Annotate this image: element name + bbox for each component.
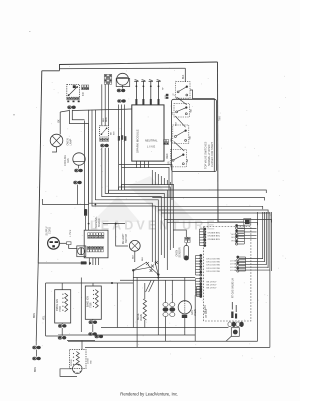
connector row under S1	[67, 97, 79, 100]
connector EOC left-mid ladder	[196, 254, 203, 276]
wire bottom y335	[58, 334, 195, 336]
svg-text:CLOSED FOR START: CLOSED FOR START	[211, 142, 214, 167]
svg-text:TAN: TAN	[188, 135, 191, 140]
coil bottom center	[143, 299, 146, 320]
svg-text:Rendered by LeadVenture, Inc.: Rendered by LeadVenture, Inc.	[120, 391, 178, 396]
svg-text:BLK: BLK	[133, 254, 135, 259]
watermark swoosh	[92, 176, 196, 222]
wire cord to junction	[59, 242, 66, 244]
wire node B down	[157, 275, 159, 335]
wire right border down to control	[217, 62, 220, 222]
fuse box with circle	[77, 246, 86, 257]
wire second top line	[60, 67, 186, 70]
wire door motor loop	[60, 369, 77, 377]
wire long left drop A	[84, 121, 86, 210]
wire feed y277	[133, 277, 195, 279]
connector stack under motor	[117, 89, 125, 92]
svg-text:HI GAS: HI GAS	[232, 239, 240, 242]
svg-text:BK LT RLY: BK LT RLY	[207, 282, 218, 284]
wire node A2 down	[136, 278, 138, 348]
svg-text:ON BKE BRL: ON BKE BRL	[208, 236, 221, 238]
svg-text:BRN: BRN	[35, 367, 37, 372]
wire to light switch	[116, 224, 128, 246]
wire left border (L1 feed)	[38, 71, 42, 263]
svg-text:BK: BK	[58, 119, 60, 123]
electrode IGNITOR 4	[158, 82, 160, 105]
connector EOC left-bot ladder	[196, 277, 203, 296]
svg-text:ML LIGHT: ML LIGHT	[123, 233, 125, 244]
module DOOR LOCK box	[70, 350, 87, 369]
svg-text:BLK: BLK	[103, 117, 105, 122]
svg-text:VALVE: VALVE	[140, 313, 143, 321]
wire to connector	[46, 335, 58, 337]
component EOC bottom-left marks	[231, 312, 233, 319]
wire S1 out upper	[72, 110, 84, 120]
wire bundle tops under spark module	[151, 170, 153, 185]
switch S2 box	[100, 126, 109, 137]
svg-text:WH: WH	[114, 131, 116, 135]
connector under S2	[100, 138, 109, 141]
svg-text:TAN: TAN	[186, 158, 189, 163]
switch RR top valve	[168, 149, 187, 167]
svg-text:LEADVENTURE: LEADVENTURE	[90, 219, 218, 233]
svg-text:GAS: GAS	[191, 310, 194, 315]
wire border to EOC connector	[218, 221, 244, 223]
svg-text:DR LOCK SW: DR LOCK SW	[207, 265, 220, 267]
motor COOLING FAN circle	[73, 153, 85, 165]
svg-text:BLK: BLK	[142, 256, 144, 261]
wire terminal board drops	[88, 258, 90, 265]
node bus b	[88, 223, 90, 225]
switch selector contacts	[146, 262, 149, 265]
module BROIL IGNITOR box	[55, 290, 71, 323]
connector under BROIL box	[58, 324, 66, 327]
svg-text:LR: LR	[171, 112, 174, 115]
svg-text:L I N E: L I N E	[69, 229, 72, 237]
svg-text:ITOR: ITOR	[60, 306, 62, 312]
svg-text:BLK: BLK	[183, 74, 185, 79]
svg-text:BROIL IGN: BROIL IGN	[57, 299, 59, 311]
wire two lines under module	[119, 165, 172, 200]
svg-text:SENSOR: SENSOR	[179, 247, 182, 257]
connector block J1	[82, 85, 89, 90]
wire EOC left-bot down	[194, 295, 196, 341]
connector BRN bottom	[33, 357, 41, 360]
svg-text:BK LT RLY: BK LT RLY	[207, 288, 218, 290]
svg-text:L I N E: L I N E	[147, 145, 155, 149]
board TERMINAL BOARD box	[84, 230, 108, 258]
wire to oven lamp	[59, 112, 61, 134]
svg-text:BLK: BLK	[176, 121, 178, 126]
svg-text:RED: RED	[106, 117, 108, 122]
svg-text:DR LOCK SW: DR LOCK SW	[207, 268, 220, 270]
node tb tap	[115, 223, 117, 225]
connector EOC right-mid ladder	[237, 256, 246, 272]
wire sensor feed	[173, 230, 186, 237]
connector BRN top	[33, 346, 41, 349]
svg-text:BRN: BRN	[34, 313, 36, 318]
svg-text:ON BKE BRL: ON BKE BRL	[208, 239, 221, 241]
wire top-left border	[42, 70, 60, 72]
svg-text:CORD: CORD	[49, 227, 52, 234]
wire BLK feed to SW1	[184, 68, 186, 82]
wire top border step	[60, 62, 218, 71]
connector under BAKE box	[89, 321, 97, 324]
module SPARK MODULE box	[132, 105, 164, 161]
svg-text:LO GAS: LO GAS	[230, 260, 238, 263]
wire lamp tap	[60, 111, 69, 113]
switch RF top valve	[170, 125, 189, 144]
wire top feed to spark module	[72, 109, 132, 111]
plug SUPPLY CORD circle	[48, 237, 60, 249]
svg-text:LAMP: LAMP	[70, 138, 73, 145]
connector comb near 195	[197, 285, 203, 297]
svg-text:ON BKE BRL: ON BKE BRL	[208, 233, 221, 235]
wire feed y280	[120, 279, 195, 281]
motor door lock circle	[73, 364, 83, 374]
svg-text:8 8: 8 8	[81, 92, 85, 96]
node N junction	[89, 262, 91, 264]
node ignitor junction A	[132, 269, 134, 271]
svg-text:DOOR: DOOR	[71, 359, 73, 366]
svg-text:SWITCH: SWITCH	[126, 234, 128, 243]
wire relay feeds	[165, 280, 167, 302]
connector EOC left-top ladder	[200, 228, 207, 247]
wire node A down	[132, 270, 134, 327]
wire tb upper connections	[85, 208, 87, 210]
wire fan down	[77, 185, 79, 205]
connector EOC bottom row	[228, 322, 244, 327]
wire EOC right ladder taps	[239, 258, 263, 260]
switch LR top valve	[171, 104, 190, 118]
svg-text:BAKE IGN: BAKE IGN	[87, 296, 90, 307]
sensor OVEN SENSOR probe	[184, 246, 189, 261]
wire diag b	[149, 280, 155, 292]
svg-text:DR LOCK SW: DR LOCK SW	[207, 262, 220, 264]
wire diag a	[146, 280, 152, 292]
wire cascade interconnects	[177, 97, 187, 105]
wire cord neutral	[69, 245, 78, 249]
wire into door lock	[81, 341, 83, 350]
node bus a	[95, 204, 97, 206]
valve GAS VALVE circle	[178, 301, 191, 314]
wire from EOC box	[226, 336, 231, 341]
connector EOC top right	[244, 219, 251, 226]
wire motor stub	[122, 85, 124, 88]
control EOC dashed box	[204, 227, 251, 322]
svg-text:RT GAS VALVE LH: RT GAS VALVE LH	[232, 278, 235, 298]
connector pair lower	[74, 181, 82, 184]
wire N run at y263	[38, 262, 87, 264]
svg-text:BK LT RLY: BK LT RLY	[207, 285, 218, 287]
connector under cooling fan	[75, 169, 83, 172]
svg-text:FAN: FAN	[67, 158, 70, 163]
terminal grid lower	[87, 246, 103, 252]
module BAKE IGNITOR box	[85, 286, 101, 319]
svg-text:TAN: TAN	[190, 108, 193, 113]
motor CONV FAN circle	[117, 73, 129, 85]
connector sensor	[185, 237, 190, 242]
electrode IGNITOR 3	[150, 82, 152, 105]
wire bottom y327	[101, 327, 228, 329]
connector module right	[164, 140, 169, 145]
svg-text:LOCK: LOCK	[88, 358, 90, 364]
node y283	[111, 282, 113, 284]
wire left hook y204	[43, 199, 89, 205]
connector EOC right-top ladder	[236, 224, 245, 245]
wire verticals from S2 cluster	[101, 148, 103, 193]
connector pair P1	[68, 106, 76, 109]
svg-text:LO GAS: LO GAS	[230, 266, 238, 269]
relay contacts pair	[163, 303, 168, 317]
connector block J2 (8888)	[104, 74, 112, 84]
wire lamp return	[52, 147, 57, 152]
wire feed y283	[46, 282, 134, 284]
wire BRN to connector	[35, 341, 37, 346]
wire S1 out lower	[69, 110, 88, 124]
switch S1 clock-switch box	[67, 85, 80, 98]
svg-text:RED: RED	[167, 153, 169, 158]
wire bottom inner run	[68, 340, 258, 342]
connector pair under S2	[101, 144, 109, 147]
svg-text:SPARK MODULE: SPARK MODULE	[136, 129, 140, 153]
wire ignitor box feeds	[61, 283, 63, 290]
wire SW1 to right rail	[190, 90, 214, 172]
svg-text:BOARD: BOARD	[98, 218, 101, 227]
lamp OVEN LAMP circle	[50, 134, 63, 147]
wire left drop to door conn	[45, 283, 47, 336]
wire module bottom stubs	[136, 161, 138, 168]
svg-text:YEL: YEL	[44, 315, 46, 320]
svg-text:LO GAS: LO GAS	[230, 263, 238, 266]
svg-text:ITOR: ITOR	[91, 302, 93, 308]
wire right nest verticals	[257, 212, 259, 341]
wire verticals from motor connectors	[118, 105, 120, 191]
wire bus horizontal runs	[89, 185, 153, 262]
terminal grid upper	[88, 233, 104, 239]
svg-text:DR LOCK SW: DR LOCK SW	[207, 271, 220, 273]
svg-text:TAN: TAN	[219, 116, 222, 121]
switch LF top valve	[173, 82, 191, 99]
switch OVEN LIGHT circle	[129, 240, 140, 251]
box top valve switches outline	[172, 99, 217, 171]
svg-text:DR LOCK SW: DR LOCK SW	[207, 259, 220, 261]
wire tb right tap	[103, 223, 125, 225]
wire light switch down	[134, 251, 136, 262]
motor mount box	[116, 79, 130, 87]
wire long left drop B	[88, 124, 90, 231]
svg-text:RF: RF	[170, 138, 173, 142]
scan speckle	[13, 31, 286, 359]
wire runs extending right to EOC nest	[124, 190, 266, 193]
wire sensor stub	[185, 243, 187, 246]
connector pair right	[95, 335, 103, 338]
electrode IGNITOR 1	[135, 82, 137, 105]
wire BRN left drop	[36, 263, 38, 341]
wire fan stub	[78, 165, 80, 168]
node ignitor junction B	[157, 273, 159, 275]
wire bottom outer run	[85, 346, 270, 348]
svg-text:BROIL: BROIL	[138, 312, 140, 320]
box with circle under EOC	[231, 328, 239, 337]
electrode IGNITOR 2	[142, 82, 144, 105]
svg-text:LO GAS: LO GAS	[230, 269, 238, 272]
wire door link	[67, 340, 95, 342]
wire fan diagonals	[133, 262, 147, 270]
svg-text:NEUTRAL: NEUTRAL	[145, 139, 158, 143]
svg-text:HT GAS: HT GAS	[204, 305, 207, 314]
